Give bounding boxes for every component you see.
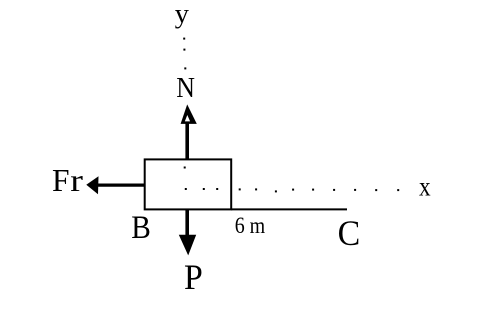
- svg-text:B: B: [131, 210, 151, 246]
- force arrow N (upward): [181, 104, 197, 159]
- svg-text:N: N: [176, 72, 195, 104]
- y-axis dotted line: [183, 38, 186, 169]
- force arrow Fr (leftward friction): [86, 176, 145, 194]
- force arrow P (downward weight): [179, 209, 196, 256]
- ground line (bottom surface to C): [231, 208, 347, 210]
- svg-text:6 m: 6 m: [235, 213, 266, 239]
- svg-text:y: y: [175, 0, 190, 28]
- svg-text:P: P: [184, 257, 203, 297]
- x-axis dotted line: [185, 188, 399, 192]
- svg-text:Fr: Fr: [52, 163, 84, 198]
- block rectangle B: [145, 159, 232, 209]
- svg-text:C: C: [338, 213, 361, 253]
- svg-text:x: x: [419, 172, 431, 202]
